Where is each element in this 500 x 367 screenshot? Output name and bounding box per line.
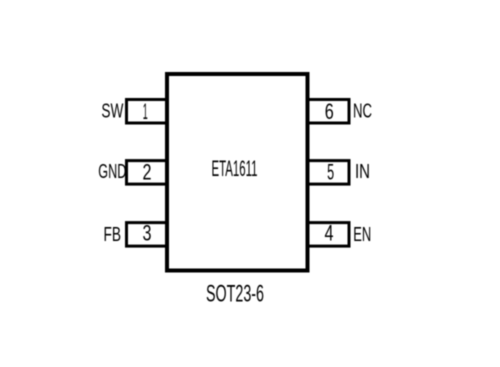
svg-text:1: 1 bbox=[143, 99, 148, 124]
pin 5 box bbox=[307, 161, 350, 185]
pin 6 box bbox=[307, 100, 350, 124]
svg-text:NC: NC bbox=[353, 101, 372, 123]
svg-text:EN: EN bbox=[353, 224, 371, 246]
pin 3 box bbox=[127, 223, 168, 247]
IC body U1 ETA1611 bbox=[167, 74, 308, 271]
svg-text:IN: IN bbox=[355, 161, 370, 183]
pin 2 box bbox=[127, 161, 168, 185]
pin 4 box bbox=[307, 223, 350, 247]
svg-text:5: 5 bbox=[327, 159, 334, 184]
svg-text:ETA1611: ETA1611 bbox=[212, 156, 258, 181]
svg-text:4: 4 bbox=[325, 221, 334, 246]
svg-text:SOT23-6: SOT23-6 bbox=[206, 280, 264, 307]
svg-text:GND: GND bbox=[98, 161, 126, 183]
svg-text:FB: FB bbox=[104, 224, 122, 246]
svg-text:3: 3 bbox=[143, 221, 152, 246]
svg-text:SW: SW bbox=[101, 100, 123, 122]
svg-text:6: 6 bbox=[325, 99, 334, 124]
svg-text:2: 2 bbox=[143, 159, 152, 184]
pin 1 box bbox=[127, 100, 168, 124]
